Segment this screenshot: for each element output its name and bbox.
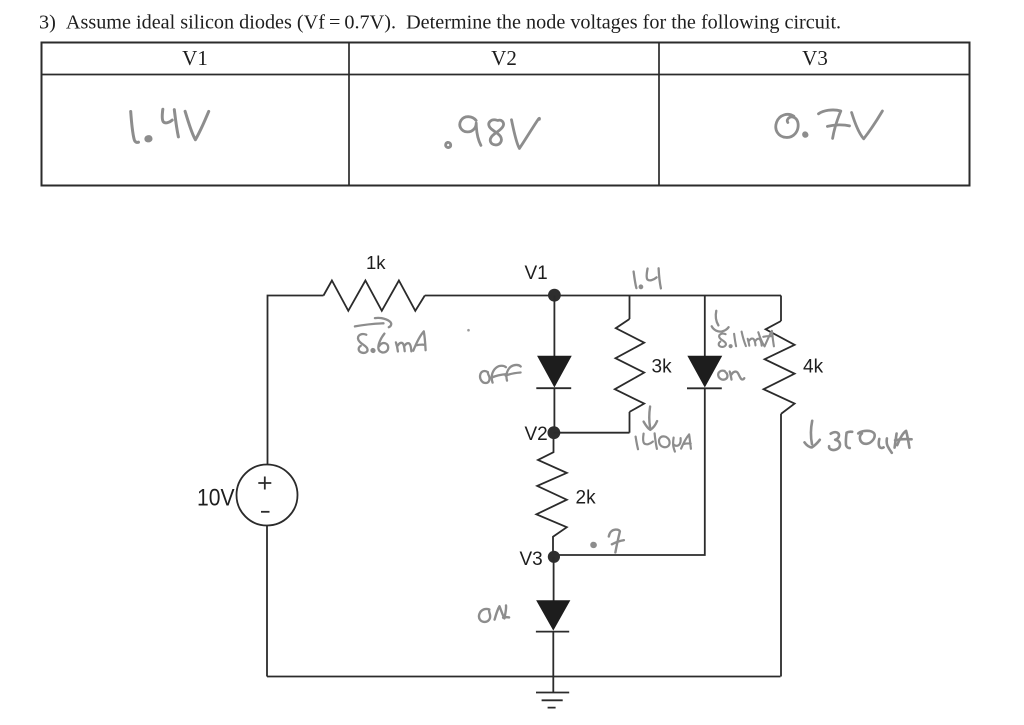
scan speck <box>467 329 470 332</box>
wire: top rail middle segment (R1 to V1 to 4k corner) <box>425 295 781 297</box>
resistor R3 3k <box>615 319 644 412</box>
handwritten current 140 uA (3k) <box>636 433 691 451</box>
diode D1 (OFF) triangle <box>538 356 571 386</box>
diode D2 cathode bar <box>687 387 722 389</box>
handwritten arrow down (D2 current) <box>712 311 729 332</box>
handwritten ON (diode D3 state) <box>479 606 509 622</box>
ground symbol <box>536 693 569 708</box>
svg-text:3k: 3k <box>652 357 673 378</box>
diode D3 (ON) triangle <box>537 601 570 630</box>
svg-text:V1: V1 <box>182 46 208 70</box>
handwritten answer V2: .98V <box>446 117 540 149</box>
handwritten OFF (diode D1 state) <box>480 365 521 383</box>
wire: R4 bottom stub <box>780 414 782 677</box>
handwritten current 350 uA (4k) <box>829 431 912 453</box>
svg-text:V2: V2 <box>491 46 517 70</box>
table column divider 1 <box>348 43 350 186</box>
handwritten arrow down (4k current) <box>805 421 820 448</box>
handwritten answer V3: 0.7V <box>776 110 883 139</box>
node V3 <box>548 551 560 563</box>
diode D3 cathode bar <box>536 631 569 633</box>
svg-text:1k: 1k <box>366 252 386 273</box>
svg-text:V1: V1 <box>525 263 548 284</box>
handwritten current arrow through R1 <box>355 318 391 327</box>
svg-text:2k: 2k <box>576 488 597 509</box>
table header divider line <box>42 74 970 76</box>
table column divider 2 <box>658 43 660 186</box>
diode D1 cathode bar <box>536 387 571 389</box>
svg-text:10V: 10V <box>197 485 235 512</box>
resistor R2 2k (with stubs from V2 to V3) <box>536 439 566 551</box>
handwritten arrow down (3k current) <box>644 407 658 430</box>
svg-text:4k: 4k <box>803 357 824 378</box>
wire: D3 cathode to ground <box>552 632 554 693</box>
wire: D1 anode from V1 <box>553 296 555 358</box>
diode D2 (ON) triangle <box>688 356 721 386</box>
wire: D3 anode from V3 <box>553 557 555 601</box>
handwritten on (diode D2 state) <box>718 371 744 380</box>
resistor R1 1k <box>324 281 425 311</box>
svg-text:V2: V2 <box>525 424 548 445</box>
wire: top rail left segment (left corner to R1) <box>268 296 324 465</box>
node V2 <box>548 426 561 439</box>
wire: bottom rail <box>267 676 781 678</box>
handwritten current 8.1 mA (D2) <box>719 331 774 347</box>
wire: source bottom to bottom rail <box>266 526 268 677</box>
answer table frame <box>42 43 970 186</box>
handwritten answer V1: 1.4V <box>131 109 209 142</box>
voltage source VS 10V <box>237 465 298 526</box>
handwritten node voltage .7 (V3) <box>591 530 623 553</box>
node V1 <box>548 289 561 302</box>
svg-text:3) Assume ideal silicon diode: 3) Assume ideal silicon diodes (Vf = 0.7… <box>39 12 841 34</box>
svg-text:V3: V3 <box>520 549 543 570</box>
wire: R3 bottom stub <box>629 412 631 433</box>
svg-text:V3: V3 <box>802 46 828 70</box>
wire: D1 cathode to V2 <box>553 388 555 433</box>
wire: R4 top stub <box>780 296 782 322</box>
resistor R4 4k <box>764 321 795 414</box>
wire: D2 cathode down to V3 level <box>554 388 705 555</box>
source plus sign <box>258 477 271 490</box>
wire: V2 to R3 bottom <box>554 432 630 434</box>
source minus sign <box>261 511 270 513</box>
handwritten current 8.6 mA <box>358 331 426 353</box>
wire: D2 anode from top rail <box>704 296 706 357</box>
handwritten node voltage 1.4 (top rail) <box>634 268 661 288</box>
wire: R3 top stub <box>629 296 631 320</box>
